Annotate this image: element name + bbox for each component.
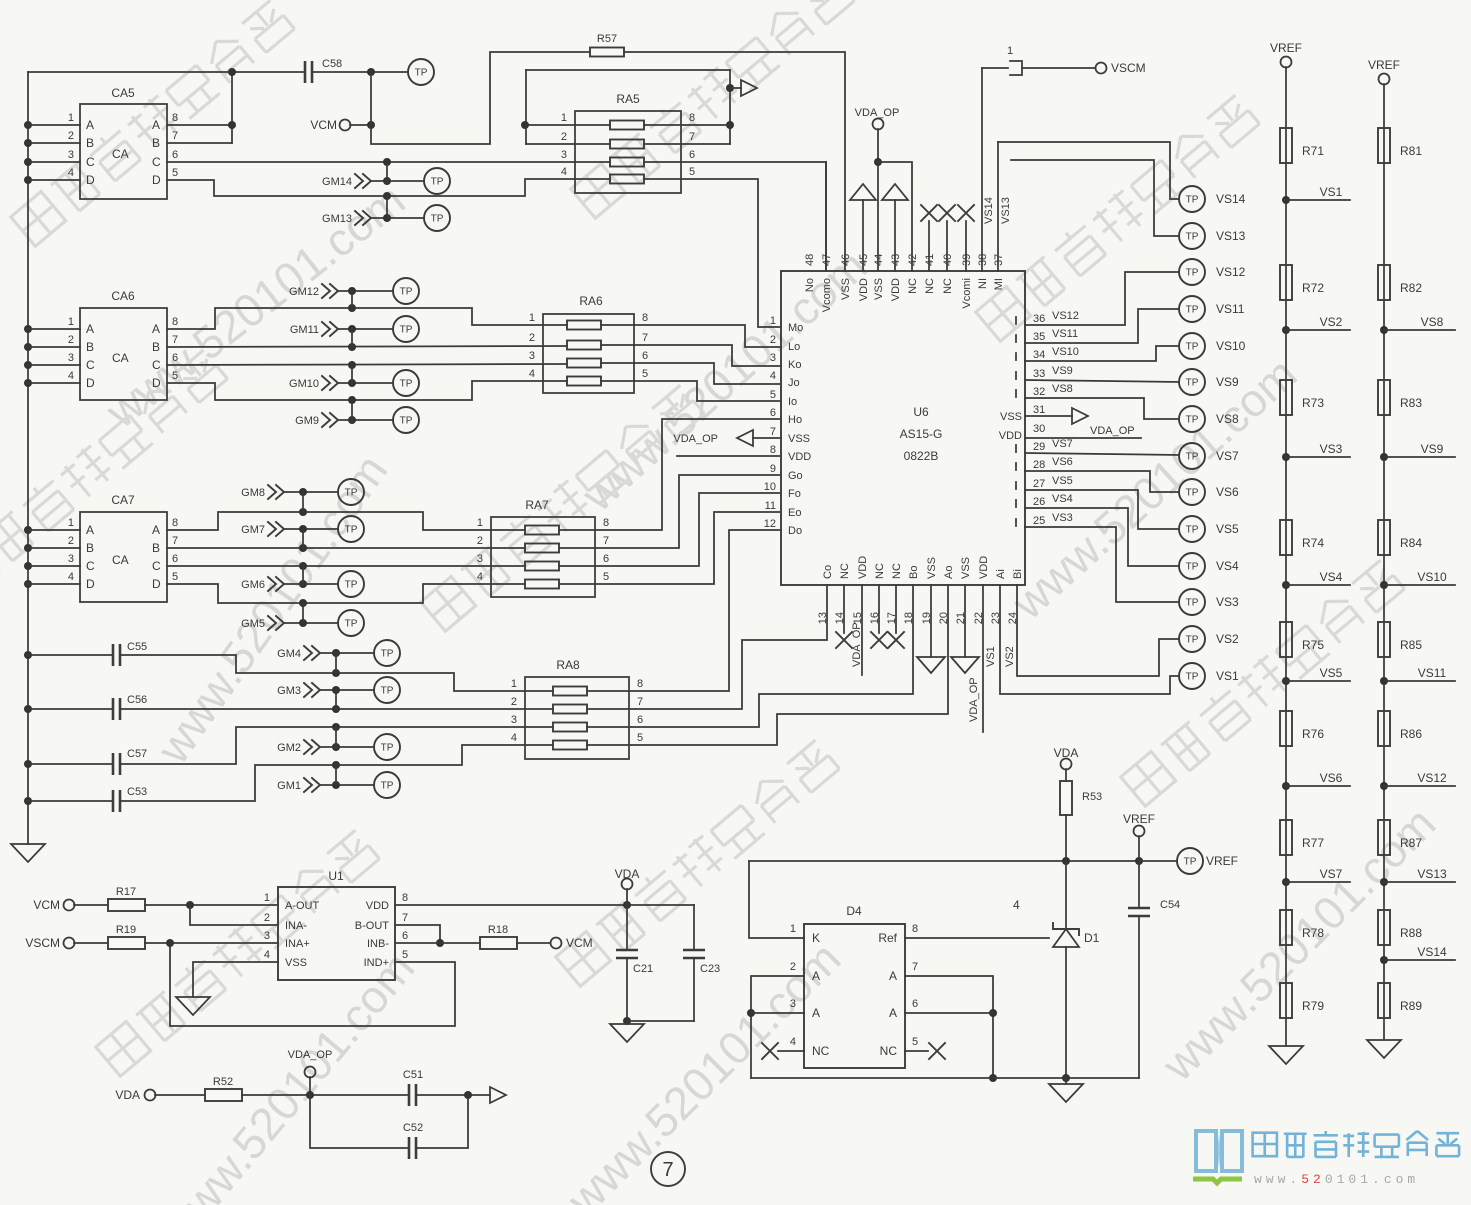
svg-text:VDD: VDD: [890, 278, 902, 301]
svg-text:VS11: VS11: [1418, 666, 1447, 680]
svg-text:26: 26: [1033, 496, 1045, 508]
wire CA6 pin7 to RA6 pin2: [167, 343, 567, 351]
U6 right pin labels: [999, 313, 1045, 527]
svg-text:9: 9: [770, 463, 776, 475]
wire RA5 top loop: [526, 70, 734, 144]
testpoint TP GM9: [393, 407, 419, 433]
node GM9: [295, 400, 393, 427]
svg-text:A: A: [86, 322, 94, 336]
svg-text:TP: TP: [1186, 305, 1199, 316]
wire RA6 pin5 to U6 pin5 Io: [601, 381, 781, 401]
svg-text:GM6: GM6: [241, 579, 265, 591]
svg-text:INB-: INB-: [367, 938, 389, 950]
svg-text:TP: TP: [1186, 415, 1199, 426]
svg-text:40: 40: [942, 254, 954, 266]
wire U6 pin24 to TP VS2: [1004, 585, 1179, 676]
svg-text:C54: C54: [1160, 899, 1180, 911]
svg-text:D: D: [86, 173, 95, 187]
capacitor C53: [28, 786, 147, 812]
svg-text:TP: TP: [381, 686, 394, 697]
wire U1 pin8 VDD rail: [395, 901, 694, 909]
wire ladder-left spine: [1285, 67, 1287, 1046]
op-amp U1 body: [264, 869, 408, 980]
svg-text:No: No: [804, 278, 816, 292]
resistor R77: [1280, 820, 1324, 855]
wire RA5 pin5 to U6 pin1 Mo: [644, 179, 781, 327]
svg-text:32: 32: [1033, 386, 1045, 398]
svg-text:TP: TP: [400, 287, 413, 298]
node GM8: [241, 485, 338, 512]
terminal VDA_OP bottom: [288, 1049, 333, 1095]
wire D4 pin1 to VREF rail: [749, 861, 804, 938]
svg-text:R85: R85: [1400, 638, 1422, 652]
svg-text:7: 7: [689, 131, 695, 143]
svg-text:35: 35: [1033, 331, 1045, 343]
svg-text:VS14: VS14: [1417, 945, 1447, 959]
svg-text:VDD: VDD: [788, 451, 811, 463]
node VS5 tap: [1282, 666, 1350, 685]
wire U6 pin28 to TP VS6: [1025, 456, 1179, 492]
svg-text:B: B: [86, 136, 94, 150]
wire RA8 pin8 to U6 pin12 Do: [587, 530, 781, 691]
node VS7 tap: [1282, 867, 1350, 886]
testpoint TP VS11: [1179, 296, 1245, 322]
svg-text:www.520101.com: www.520101.com: [1254, 1172, 1419, 1187]
svg-text:VS2: VS2: [1216, 632, 1239, 646]
svg-text:VS9: VS9: [1216, 375, 1239, 389]
svg-text:1: 1: [68, 112, 74, 124]
wire U6 pin15 VDA_OP stub: [851, 585, 863, 675]
resistor R87: [1378, 820, 1422, 855]
testpoint TP VS8: [1179, 406, 1239, 432]
svg-text:1: 1: [529, 312, 535, 324]
svg-text:VS7: VS7: [1052, 438, 1073, 450]
wire U6 pin38 to VSCM: [982, 68, 1008, 271]
net number 4: [1013, 898, 1020, 912]
svg-text:25: 25: [1033, 515, 1045, 527]
node GM3: [277, 683, 374, 709]
resistor R17: [108, 886, 145, 911]
svg-text:6: 6: [172, 553, 178, 565]
wire RA7 pin5 to U6 pin11 Eo: [559, 512, 781, 584]
node VS11 tap: [1380, 666, 1455, 685]
resistor R72: [1280, 265, 1324, 300]
svg-text:6: 6: [637, 714, 643, 726]
svg-text:2: 2: [68, 130, 74, 142]
svg-text:3: 3: [529, 350, 535, 362]
svg-text:D: D: [86, 577, 95, 591]
page number 7: [651, 1152, 685, 1186]
svg-text:4: 4: [561, 166, 567, 178]
nc D4 pin4: [762, 1043, 804, 1059]
svg-text:4: 4: [511, 732, 517, 744]
svg-text:MI: MI: [993, 278, 1005, 290]
svg-text:B: B: [86, 340, 94, 354]
svg-text:3: 3: [477, 553, 483, 565]
wire C58 to TP: [312, 68, 408, 76]
svg-text:1: 1: [477, 517, 483, 529]
svg-text:VS13: VS13: [1000, 197, 1012, 224]
svg-text:VREF: VREF: [1368, 58, 1400, 72]
node GM1: [277, 765, 374, 792]
svg-text:INA-: INA-: [285, 920, 307, 932]
svg-text:IND+: IND+: [364, 957, 389, 969]
wire CA7 pin7 to RA7 pin2: [167, 544, 525, 552]
resistor R83: [1378, 380, 1422, 415]
svg-text:A: A: [889, 1006, 897, 1020]
svg-text:GM10: GM10: [289, 378, 319, 390]
svg-text:42: 42: [907, 254, 919, 266]
svg-text:44: 44: [873, 254, 885, 266]
capacitor C21: [616, 905, 653, 1025]
svg-text:TP: TP: [400, 325, 413, 336]
svg-text:37: 37: [993, 254, 1005, 266]
svg-text:C21: C21: [633, 963, 653, 975]
svg-text:NC: NC: [942, 278, 954, 294]
svg-text:TP: TP: [1186, 195, 1199, 206]
svg-text:VDA_OP: VDA_OP: [968, 677, 980, 722]
svg-text:28: 28: [1033, 459, 1045, 471]
svg-text:1: 1: [511, 678, 517, 690]
node VS14 tap: [1380, 945, 1455, 964]
svg-text:3: 3: [68, 149, 74, 161]
wire R52 to C51: [242, 1091, 407, 1099]
resistor R78: [1280, 910, 1324, 945]
svg-text:TP: TP: [1186, 598, 1199, 609]
svg-text:GM4: GM4: [277, 648, 301, 660]
wire C55 to RA8 pin1: [120, 655, 553, 691]
svg-text:29: 29: [1033, 441, 1045, 453]
resistor R57: [590, 33, 624, 57]
wire VDA_OP to U6 pin42: [878, 162, 912, 271]
svg-text:VS10: VS10: [1216, 339, 1246, 353]
svg-text:R52: R52: [213, 1076, 233, 1088]
arrow out VDA_OP net: [490, 1087, 506, 1103]
terminal VREF ladder-left: [1270, 41, 1302, 68]
resistor R75: [1280, 622, 1324, 657]
terminal VCM top: [310, 118, 375, 132]
wire C56 to RA8 pin2: [120, 705, 553, 713]
resistor R19: [108, 924, 145, 949]
testpoint TP GM13: [424, 205, 450, 231]
terminal VSCM top: [1096, 61, 1146, 75]
svg-text:8: 8: [912, 923, 918, 935]
testpoint TP GM12: [393, 278, 419, 304]
svg-text:TP: TP: [1186, 525, 1199, 536]
svg-text:5: 5: [642, 368, 648, 380]
svg-text:4: 4: [770, 370, 776, 382]
svg-text:18: 18: [903, 612, 915, 624]
svg-text:8: 8: [642, 312, 648, 324]
diode-ref D4 body: [790, 904, 918, 1068]
svg-text:8: 8: [172, 517, 178, 529]
svg-text:6: 6: [642, 350, 648, 362]
svg-text:Ho: Ho: [788, 414, 802, 426]
ground U1 pin4: [176, 962, 278, 1015]
svg-text:R89: R89: [1400, 999, 1422, 1013]
wire bus to CA6 pins 1-4: [28, 329, 80, 383]
testpoint TP GM6: [338, 571, 364, 597]
svg-text:TP: TP: [400, 379, 413, 390]
svg-text:VS5: VS5: [1320, 666, 1343, 680]
svg-text:U6: U6: [913, 405, 929, 419]
svg-text:www.520101.com: www.520101.com: [146, 445, 397, 773]
resistor R81: [1378, 128, 1422, 163]
wire CA6 pin5 to RA6 pin4: [167, 381, 567, 404]
wire bus to CA7 pins 1-4: [28, 530, 80, 584]
svg-text:R84: R84: [1400, 536, 1422, 550]
svg-text:1: 1: [68, 316, 74, 328]
wire RA7 pin7 to U6 pin9 Go: [559, 475, 781, 548]
svg-text:6: 6: [770, 407, 776, 419]
capacitor C58: [305, 58, 342, 83]
svg-text:VS8: VS8: [1421, 315, 1444, 329]
wire CA7 pin5 to RA7 pin4: [167, 584, 525, 607]
resistor R74: [1280, 520, 1324, 555]
node VS2 tap: [1282, 315, 1350, 334]
svg-text:3: 3: [264, 930, 270, 942]
svg-text:TP: TP: [345, 488, 358, 499]
svg-text:GM12: GM12: [289, 286, 319, 298]
resistor R53: [1060, 781, 1102, 861]
svg-text:VSS: VSS: [1000, 411, 1022, 423]
svg-text:VDD: VDD: [857, 556, 869, 579]
svg-text:1: 1: [770, 315, 776, 327]
testpoint TP VREF: [1177, 848, 1238, 874]
svg-text:GM9: GM9: [295, 415, 319, 427]
svg-text:R81: R81: [1400, 144, 1422, 158]
capacitor C54: [1128, 861, 1180, 1078]
svg-text:VS7: VS7: [1320, 867, 1343, 881]
wire RA8 pin6 to U6 pin18 Bo: [587, 585, 913, 727]
wire to TP VS13: [1011, 160, 1179, 236]
svg-text:VDA_OP: VDA_OP: [1090, 425, 1135, 437]
wire U6 pin37 to TP VS14: [998, 142, 1179, 271]
svg-text:3: 3: [561, 149, 567, 161]
svg-text:B: B: [86, 541, 94, 555]
testpoint TP GM14: [424, 168, 450, 194]
svg-text:NC: NC: [812, 1044, 830, 1058]
nc D4 pin5: [905, 1043, 945, 1059]
wire RA6 pin6 to U6 pin4 Jo: [601, 363, 781, 384]
svg-text:5: 5: [172, 571, 178, 583]
node VS9 tap: [1380, 442, 1455, 461]
svg-text:VDD: VDD: [978, 556, 990, 579]
node VS3 tap: [1282, 442, 1350, 461]
svg-text:3: 3: [68, 553, 74, 565]
svg-text:AS15-G: AS15-G: [900, 427, 943, 441]
svg-text:U1: U1: [328, 869, 344, 883]
resistor R71: [1280, 128, 1324, 163]
svg-text:CA6: CA6: [111, 289, 135, 303]
capacitor C51: [403, 1069, 423, 1106]
wire U6 pin29 to TP VS7: [1025, 438, 1179, 455]
svg-text:5: 5: [402, 949, 408, 961]
svg-text:5: 5: [172, 167, 178, 179]
svg-text:VS1: VS1: [1216, 669, 1239, 683]
svg-text:D: D: [152, 173, 161, 187]
svg-text:4: 4: [68, 571, 74, 583]
power VDA terminal R53: [1054, 746, 1079, 781]
wire VCM node loop to R57: [371, 52, 590, 144]
node VDA_OP into U6 pin7: [673, 430, 781, 446]
svg-text:0822B: 0822B: [904, 449, 939, 463]
svg-text:GM3: GM3: [277, 685, 301, 697]
node GM13: [322, 196, 424, 225]
svg-text:GM7: GM7: [241, 524, 265, 536]
svg-text:6: 6: [689, 149, 695, 161]
svg-text:VSS: VSS: [960, 557, 972, 579]
wire top rail to C58: [28, 71, 303, 73]
svg-text:C53: C53: [127, 786, 147, 798]
svg-text:TP: TP: [1186, 342, 1199, 353]
wire U6 pin35 to TP VS11: [1025, 309, 1179, 343]
ground U6 pin21: [951, 585, 979, 673]
testpoint TP VS6: [1179, 479, 1239, 505]
svg-text:A: A: [152, 322, 160, 336]
testpoint TP VS9: [1179, 369, 1239, 395]
terminal VCM right: [517, 936, 593, 950]
terminal VREF top: [1123, 812, 1155, 861]
testpoint TP VS2: [1179, 626, 1239, 652]
wire RA5 row1 row2 left loop: [521, 70, 610, 144]
testpoint TP GM2: [374, 734, 400, 760]
svg-text:7: 7: [172, 535, 178, 547]
svg-text:5: 5: [770, 389, 776, 401]
svg-text:VS5: VS5: [1216, 522, 1239, 536]
svg-text:R75: R75: [1302, 638, 1324, 652]
terminal VDA bottom-left: [115, 1088, 205, 1102]
svg-text:VSS: VSS: [840, 278, 852, 300]
wire U6 pin8 VDD stub: [677, 455, 781, 457]
svg-text:R83: R83: [1400, 396, 1422, 410]
resistor-array RA6: [529, 294, 648, 393]
svg-text:6: 6: [172, 149, 178, 161]
wire U6 pin25 to TP VS3: [1025, 512, 1179, 602]
ground bus-left: [11, 844, 45, 862]
svg-text:4: 4: [68, 167, 74, 179]
svg-text:31: 31: [1033, 404, 1045, 416]
wire U1 pin7 to pin6: [395, 925, 444, 947]
svg-text:R76: R76: [1302, 727, 1324, 741]
svg-text:7: 7: [603, 535, 609, 547]
power arrow U6 pin43: [882, 184, 908, 271]
op-amp U6 AS15-G body: [781, 271, 1025, 585]
svg-text:VDD: VDD: [858, 278, 870, 301]
wire RA5 pin6 to U6 pin47 Vcomo: [644, 162, 826, 271]
svg-text:Vcomo: Vcomo: [821, 278, 833, 312]
testpoint TP GM10: [393, 370, 419, 396]
svg-text:1: 1: [561, 112, 567, 124]
svg-text:Ko: Ko: [788, 359, 801, 371]
resistor R89: [1378, 983, 1422, 1018]
testpoint TP GM5: [338, 610, 364, 636]
wire C57 to RA8 pin3: [120, 723, 553, 764]
svg-text:TP: TP: [381, 781, 394, 792]
U6 left pin labels: [764, 315, 812, 537]
svg-text:R57: R57: [597, 33, 617, 45]
svg-text:VS14: VS14: [1216, 192, 1246, 206]
svg-text:TP: TP: [345, 580, 358, 591]
arrow out Vcom node: [730, 80, 757, 96]
svg-text:7: 7: [172, 334, 178, 346]
svg-text:39: 39: [961, 254, 973, 266]
svg-text:VS12: VS12: [1052, 310, 1079, 322]
svg-text:VS6: VS6: [1052, 456, 1073, 468]
node VS6 tap: [1282, 771, 1350, 790]
svg-text:TP: TP: [381, 649, 394, 660]
svg-text:8: 8: [637, 678, 643, 690]
node GM14: [322, 162, 424, 188]
svg-text:8: 8: [603, 517, 609, 529]
svg-text:TP: TP: [1186, 488, 1199, 499]
svg-text:VS5: VS5: [1052, 475, 1073, 487]
svg-text:VREF: VREF: [1270, 41, 1302, 55]
wire RA6 pin7 to U6 pin3 Ko: [601, 345, 781, 366]
svg-text:2: 2: [511, 696, 517, 708]
net bus-left vertical: [24, 72, 32, 844]
logo book icon: [1193, 1131, 1242, 1183]
svg-text:C: C: [152, 559, 161, 573]
svg-text:Ai: Ai: [995, 569, 1007, 579]
resistor R86: [1378, 711, 1422, 746]
svg-text:Bo: Bo: [908, 566, 920, 579]
svg-text:VS8: VS8: [1216, 412, 1239, 426]
svg-text:VS12: VS12: [1417, 771, 1447, 785]
svg-text:CA7: CA7: [111, 493, 135, 507]
capacitor C55: [28, 641, 147, 666]
wire R17 to U1 pin1: [145, 901, 278, 909]
svg-text:1: 1: [1007, 45, 1013, 57]
svg-text:VSS: VSS: [926, 557, 938, 579]
svg-text:Bi: Bi: [1012, 569, 1024, 579]
node VS12 tap: [1380, 771, 1455, 790]
node GM5: [241, 603, 338, 630]
testpoint TP GM11: [393, 316, 419, 342]
svg-text:VS6: VS6: [1320, 771, 1343, 785]
wire RA7 pin8 to U6 pin6 Ho: [559, 419, 781, 530]
svg-text:10: 10: [764, 481, 776, 493]
svg-text:5: 5: [689, 166, 695, 178]
wire to U1 pin2: [190, 905, 278, 925]
svg-text:33: 33: [1033, 368, 1045, 380]
svg-text:8: 8: [689, 112, 695, 124]
svg-text:VS4: VS4: [1052, 493, 1073, 505]
testpoint TP VS5: [1179, 516, 1239, 542]
svg-text:TP: TP: [415, 68, 428, 79]
node VDA_OP out U6 pin31: [1025, 408, 1135, 437]
node GM2: [277, 727, 374, 754]
svg-text:2: 2: [561, 131, 567, 143]
svg-text:NC: NC: [839, 563, 851, 579]
svg-text:7: 7: [770, 426, 776, 438]
wire U6 pin47 Vcomo stub: [825, 162, 827, 271]
svg-text:C: C: [152, 155, 161, 169]
wire RA6 pin8 to U6 pin2 Lo: [601, 325, 781, 347]
svg-text:A: A: [152, 118, 160, 132]
wire U6 pin32 to TP VS8: [1025, 383, 1179, 419]
svg-text:VDA_OP: VDA_OP: [288, 1049, 333, 1061]
wire U6 pin23 to TP VS1: [985, 585, 1179, 694]
svg-text:6: 6: [603, 553, 609, 565]
wire CA7 pin8 to RA7 pin1: [167, 508, 525, 530]
wire U6 pin22 VDA_OP stub: [968, 585, 983, 732]
wire RA8 pin7 to U6 pin13 Co: [587, 585, 827, 709]
svg-text:RA7: RA7: [525, 498, 549, 512]
svg-text:5: 5: [637, 732, 643, 744]
testpoint TP VS14: [1179, 186, 1246, 212]
svg-text:VS2: VS2: [1004, 646, 1016, 667]
